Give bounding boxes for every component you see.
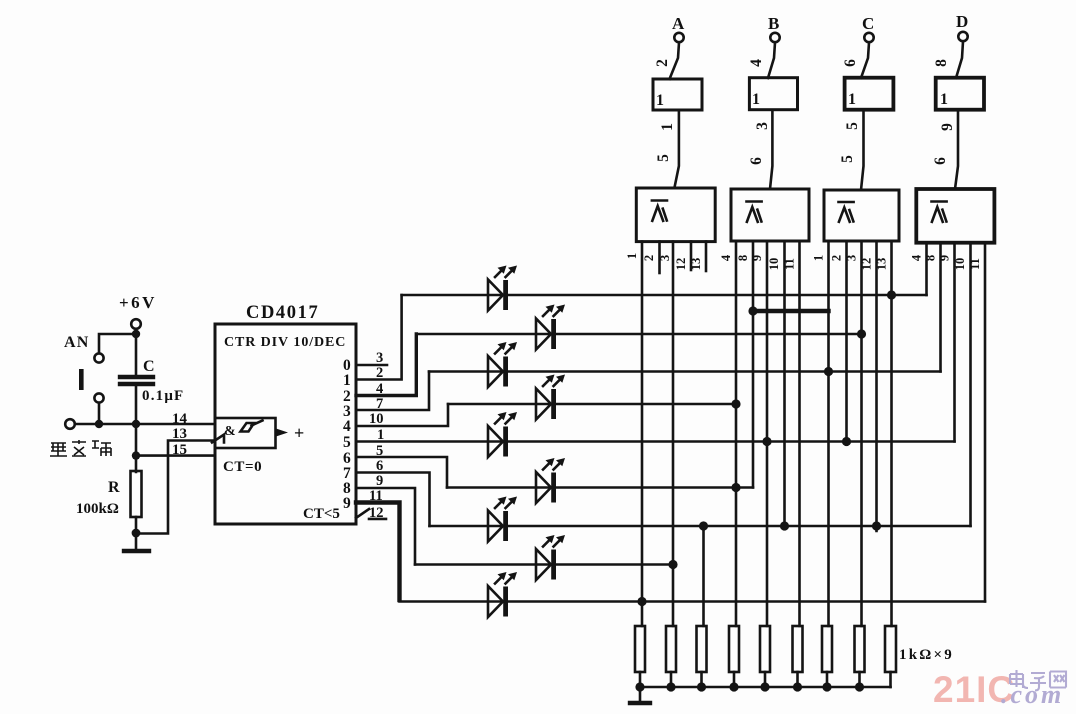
svg-text:9: 9	[343, 495, 351, 512]
junction dot pin15 node	[132, 451, 140, 459]
wire gate C pin12 column	[875, 242, 878, 532]
svg-text:5: 5	[343, 434, 351, 451]
LED VD7	[488, 497, 517, 542]
LED VD9	[488, 572, 517, 617]
LED VD2	[536, 305, 565, 350]
wire gate A pin12 stub	[690, 242, 693, 271]
svg-text:C: C	[862, 14, 874, 33]
svg-text:&: &	[224, 424, 236, 439]
wire row5 from pin 1	[356, 440, 955, 443]
LED VD1	[488, 266, 517, 311]
wire row4	[448, 403, 736, 406]
svg-text:CD4017: CD4017	[246, 303, 319, 323]
wire R to ground	[135, 517, 138, 549]
svg-text:9: 9	[939, 123, 956, 131]
gate A pin labels	[625, 253, 703, 270]
gate C pin labels	[812, 255, 889, 270]
svg-text:6: 6	[842, 59, 859, 67]
svg-text:4: 4	[910, 254, 924, 261]
svg-text:8: 8	[736, 255, 750, 261]
svg-text:5: 5	[844, 122, 861, 130]
watermark dianziwang	[1010, 670, 1066, 691]
inverter U2b "1"	[749, 78, 797, 110]
pin 12 stub CT&lt;5	[369, 518, 386, 521]
wire column row7 to R3	[702, 526, 705, 626]
svg-text:3: 3	[754, 122, 771, 130]
wire ground rail	[640, 686, 891, 689]
wire terminal C to inverter	[861, 43, 869, 79]
svg-text:R: R	[108, 479, 120, 496]
wire row2	[416, 333, 861, 336]
wire cap to R	[135, 386, 138, 472]
LED VD4	[536, 375, 565, 420]
gate D pin labels	[910, 254, 983, 270]
wire gate A pin1 column to R1	[641, 242, 644, 627]
wire inverter C to gate	[861, 110, 864, 190]
junction dot row5 x C2	[842, 437, 851, 446]
svg-text:10: 10	[767, 258, 781, 271]
junction dot row7 x C12	[872, 521, 881, 530]
wire out3 pin7 to row3	[356, 372, 429, 411]
svg-text:4: 4	[748, 59, 765, 67]
junction dot B8 link	[748, 306, 757, 315]
wire out1 pin2 to row1	[356, 295, 402, 380]
svg-text:15: 15	[172, 442, 187, 458]
LED VD5	[488, 412, 517, 457]
op-amp U1 CD4017 counter	[212, 303, 369, 524]
node B output terminal	[768, 14, 780, 42]
svg-text:4: 4	[343, 418, 351, 435]
svg-text:1: 1	[940, 91, 948, 108]
resistor R8 1k	[855, 626, 865, 672]
wire out9 pin11 to row9	[356, 503, 400, 601]
junction dot row8 x A3	[668, 560, 677, 569]
svg-text:100kΩ: 100kΩ	[76, 501, 119, 517]
wire junction to pushbutton AN	[99, 334, 136, 353]
pin number labels on output stubs	[369, 350, 384, 521]
svg-text:4: 4	[719, 254, 733, 261]
wire gate C pin1 column to R7	[827, 242, 830, 627]
wire gate B pin11 column to R6	[798, 242, 801, 627]
node +6V supply terminal	[119, 293, 157, 329]
svg-text:CT<5: CT<5	[303, 506, 340, 522]
junction dot button/set-line	[95, 420, 103, 428]
wire out2 pin4 to row2	[356, 334, 416, 396]
LED VD3	[488, 342, 517, 387]
svg-text:C: C	[143, 358, 155, 375]
wire pin 13 return	[136, 441, 215, 534]
wire gate C pin13 column to R9	[890, 242, 893, 627]
ground bottom rail	[630, 687, 650, 703]
svg-text:1: 1	[848, 91, 856, 108]
svg-text:1: 1	[752, 91, 760, 108]
svg-text:CTR DIV 10/DEC: CTR DIV 10/DEC	[224, 335, 346, 350]
svg-text:5: 5	[839, 155, 856, 163]
svg-text:2: 2	[830, 255, 844, 261]
gate U3b NAND	[731, 189, 809, 241]
gate U3c NAND	[824, 190, 899, 241]
resistor R6 1k	[793, 626, 803, 672]
junction dot row5 x B9	[762, 437, 771, 446]
resistor R3 1k	[697, 626, 707, 672]
wire gate A pin3 column to R2	[672, 242, 675, 627]
svg-text:A: A	[672, 14, 685, 33]
svg-text:1kΩ×9: 1kΩ×9	[899, 647, 954, 663]
gate U3a NAND	[636, 188, 715, 242]
svg-text:13: 13	[172, 426, 187, 442]
wire out4 pin10 to row4	[356, 404, 448, 426]
junction dot row2 x C3	[857, 329, 866, 338]
wire gate D pin10 column	[969, 243, 972, 527]
svg-text:+: +	[294, 423, 304, 443]
junction dots ground rail	[635, 682, 864, 691]
wire row7	[430, 525, 971, 528]
wire resistor leads to rail	[640, 672, 891, 687]
wire set-line to pin 14	[75, 423, 215, 426]
wire terminal A to inverter	[670, 43, 680, 80]
wire row9	[400, 600, 986, 603]
gate U3d NAND	[916, 189, 994, 243]
resistor R7 1k	[822, 626, 832, 672]
wire row8	[415, 563, 673, 566]
svg-text:D: D	[956, 12, 968, 31]
resistor R5 1k	[760, 626, 770, 672]
junction dot row3 x C1	[824, 367, 833, 376]
inverter U2a "1"	[653, 79, 702, 110]
svg-text:6: 6	[748, 157, 765, 165]
wire gate B pin9 column to R5	[766, 242, 769, 627]
inverter U2d "1"	[936, 78, 984, 110]
svg-text:+6V: +6V	[119, 293, 157, 312]
svg-text:2: 2	[654, 59, 671, 67]
wire gate B pin4 column to R4	[735, 242, 738, 627]
wire row6	[447, 486, 753, 489]
ground	[124, 549, 149, 553]
node D output terminal	[956, 12, 968, 41]
junction dot row9 x A1	[637, 597, 646, 606]
svg-text:3: 3	[376, 350, 383, 366]
wire gate B pin8 column	[752, 242, 755, 488]
resistor R9 1k	[885, 626, 896, 672]
gate B pin labels	[719, 254, 797, 270]
wire row1	[402, 294, 927, 297]
svg-text:CT=0: CT=0	[223, 459, 262, 475]
svg-text:6: 6	[932, 157, 949, 165]
junction dot row4 x B4	[731, 399, 740, 408]
wire row3	[429, 370, 941, 373]
resistor R2 1k	[666, 626, 676, 672]
svg-text:1: 1	[343, 372, 351, 389]
svg-text:12: 12	[674, 258, 688, 271]
wire link B8 to C1	[753, 309, 829, 313]
resistor R4 1k	[729, 626, 739, 672]
svg-text:AN: AN	[64, 334, 90, 351]
wire pin 15	[136, 454, 215, 457]
wire out8 pin9 to row8	[356, 488, 415, 565]
node C output terminal	[862, 14, 874, 42]
LED VD8	[536, 535, 565, 580]
wire gate D pin4 column	[925, 243, 928, 296]
pin 3 stub out0	[356, 364, 387, 367]
inverter U2c "1"	[845, 78, 894, 110]
resistor R 100k	[76, 471, 142, 517]
svg-text:1: 1	[656, 92, 664, 109]
wire gate A pin13 stub	[705, 242, 708, 272]
svg-text:5: 5	[655, 154, 672, 162]
junction dot row1 x C13	[887, 290, 896, 299]
svg-text:8: 8	[933, 59, 950, 67]
svg-text:1: 1	[812, 255, 826, 261]
wire gate D pin11 column	[984, 243, 987, 602]
wire inverter B to gate	[770, 110, 772, 189]
junction dot row7 x B10	[780, 521, 789, 530]
wire gate C pin2 column	[845, 242, 848, 442]
svg-text:B: B	[768, 14, 779, 33]
junction dot row6 x R4col	[731, 483, 740, 492]
svg-text:14: 14	[172, 411, 188, 427]
svg-text:1: 1	[659, 123, 676, 131]
wire terminal D to inverter	[956, 42, 963, 79]
wire gate A pin2 stub	[658, 242, 661, 274]
svg-text:0.1μF: 0.1μF	[142, 388, 184, 404]
node 置数端 set terminal	[50, 419, 111, 456]
svg-text:1: 1	[625, 253, 639, 259]
junction dot row7 x R3col	[699, 521, 708, 530]
wire gate B pin10 column	[783, 242, 786, 527]
junction dot cap/set-line	[132, 420, 140, 428]
wire inverter A to gate	[674, 110, 679, 188]
junction dot R bottom	[132, 529, 141, 538]
wire gate D pin8 column	[939, 243, 942, 372]
wire +6V to junction	[135, 329, 138, 374]
wire terminal B to inverter	[768, 43, 775, 79]
junction dot at +6V node	[132, 330, 140, 338]
wire inverter D to gate	[955, 110, 958, 189]
wire gate D pin9 column	[953, 243, 956, 442]
wire pushbutton to set-line	[98, 403, 101, 424]
pin digits 0-9 inside box	[343, 357, 351, 512]
wire gate C pin3 column to R8	[860, 242, 863, 627]
LED VD6	[536, 458, 565, 503]
svg-text:10: 10	[369, 411, 384, 427]
node A output terminal	[672, 14, 685, 42]
wire out7 pin6 to row7	[356, 473, 430, 527]
svg-text:2: 2	[642, 255, 656, 261]
wire out6 pin5 to row6	[356, 457, 447, 488]
resistor R1 1k	[635, 626, 645, 672]
pushbutton AN	[79, 353, 104, 402]
svg-text:9: 9	[376, 473, 383, 489]
capacitor C 0.1uF	[120, 358, 184, 404]
